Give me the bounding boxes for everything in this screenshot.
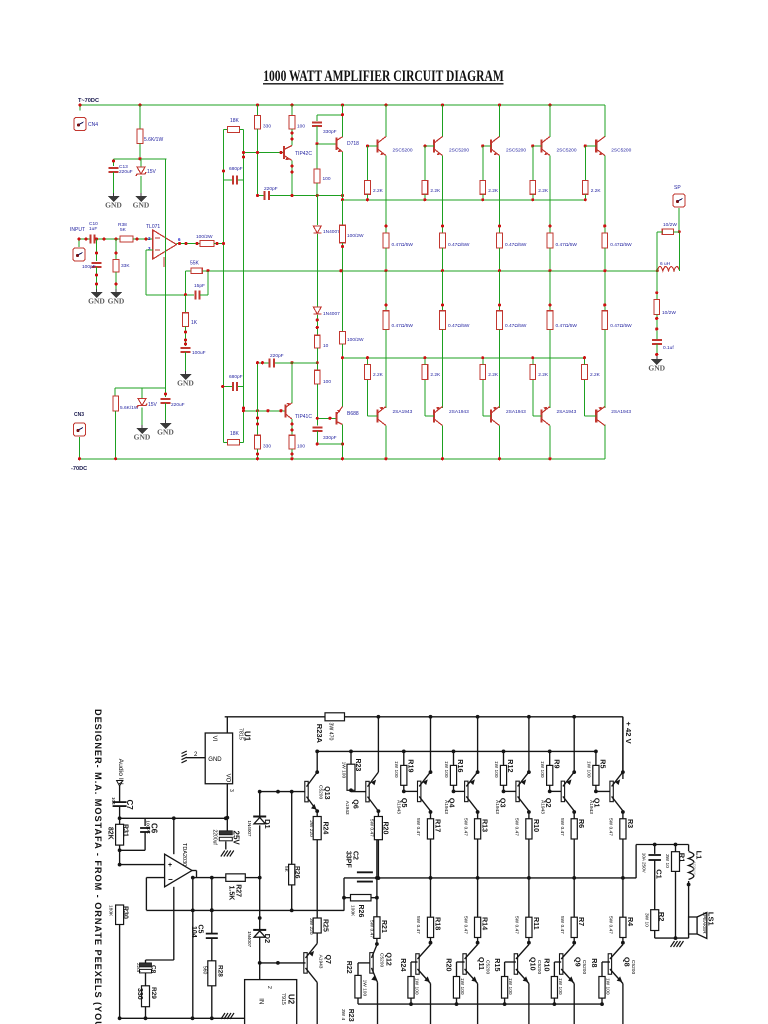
svg-text:2SC5200: 2SC5200: [449, 148, 469, 154]
svg-text:2.2K: 2.2K: [430, 188, 441, 194]
svg-text:5K: 5K: [120, 227, 127, 233]
svg-text:A1943: A1943: [396, 800, 402, 814]
svg-text:2.2K: 2.2K: [488, 372, 499, 378]
svg-text:R12: R12: [506, 759, 515, 772]
svg-text:100K: 100K: [350, 905, 356, 917]
svg-text:1W 100: 1W 100: [459, 978, 465, 995]
svg-text:1W 100: 1W 100: [362, 980, 368, 997]
svg-text:C5200: C5200: [485, 960, 491, 974]
svg-text:SPEAKER: SPEAKER: [702, 912, 707, 934]
svg-text:10/2W: 10/2W: [663, 222, 677, 228]
svg-text:CN4: CN4: [88, 122, 98, 128]
svg-text:3W 10: 3W 10: [643, 913, 649, 927]
svg-text:R18: R18: [434, 917, 443, 930]
svg-text:0.47Ω/5W: 0.47Ω/5W: [610, 242, 632, 248]
svg-text:D1: D1: [263, 819, 272, 829]
svg-text:18K: 18K: [230, 431, 240, 437]
svg-text:VI: VI: [211, 736, 217, 742]
svg-text:2W 220: 2W 220: [308, 820, 314, 837]
svg-text:680pF: 680pF: [229, 374, 243, 380]
svg-text:1N4007: 1N4007: [323, 229, 340, 235]
svg-text:C8: C8: [150, 965, 157, 974]
svg-text:CN3: CN3: [74, 412, 84, 418]
svg-text:R2: R2: [657, 912, 666, 922]
svg-text:A1943: A1943: [344, 801, 350, 815]
svg-text:R29: R29: [150, 987, 157, 999]
svg-text:330pF: 330pF: [323, 435, 337, 441]
svg-text:A1943: A1943: [588, 800, 594, 814]
svg-text:5W 0.47: 5W 0.47: [608, 916, 614, 934]
svg-text:A1943: A1943: [539, 800, 545, 814]
svg-text:R23: R23: [347, 1009, 354, 1022]
svg-text:33PF: 33PF: [344, 851, 351, 868]
svg-text:560: 560: [202, 966, 208, 975]
svg-text:15V: 15V: [147, 169, 157, 175]
svg-text:5W 0.47: 5W 0.47: [514, 818, 520, 836]
svg-text:Q6: Q6: [352, 799, 359, 808]
svg-text:GND: GND: [177, 379, 194, 388]
svg-text:A1943: A1943: [494, 800, 500, 814]
svg-text:3W 4: 3W 4: [340, 1009, 346, 1021]
svg-text:1N4007: 1N4007: [323, 311, 340, 317]
svg-text:7915: 7915: [280, 993, 286, 1005]
svg-text:2.2K: 2.2K: [488, 188, 499, 194]
svg-text:C5200: C5200: [536, 960, 542, 974]
svg-text:5.6K/1W: 5.6K/1W: [144, 137, 163, 143]
svg-text:SP: SP: [674, 185, 681, 191]
svg-text:C5200: C5200: [581, 960, 587, 974]
svg-text:TDA2030: TDA2030: [181, 843, 187, 866]
svg-text:R24: R24: [322, 822, 329, 835]
svg-text:C5200: C5200: [379, 953, 385, 967]
svg-text:R31: R31: [122, 824, 129, 837]
svg-text:R28: R28: [216, 965, 223, 977]
svg-text:5W 0.47: 5W 0.47: [415, 916, 421, 934]
svg-text:2SC5200: 2SC5200: [393, 148, 413, 154]
svg-text:VO: VO: [225, 774, 231, 783]
svg-text:104: 104: [111, 797, 116, 805]
svg-text:15pF: 15pF: [194, 283, 205, 289]
svg-text:1.5K: 1.5K: [228, 886, 235, 901]
svg-text:DESIGNER- M.A. MOSTAFA - FROM: DESIGNER- M.A. MOSTAFA - FROM - ORNATE P…: [93, 709, 103, 1024]
svg-text:100: 100: [297, 444, 305, 450]
svg-text:5W 0.47: 5W 0.47: [368, 920, 374, 938]
svg-text:1W 100: 1W 100: [393, 761, 399, 778]
svg-text:Q12: Q12: [384, 953, 391, 966]
svg-text:100pF: 100pF: [82, 264, 96, 270]
svg-text:2.2K: 2.2K: [538, 188, 549, 194]
svg-text:1uF: 1uF: [89, 226, 97, 232]
svg-text:5W 0.47: 5W 0.47: [415, 818, 421, 836]
svg-text:GND: GND: [157, 428, 174, 437]
svg-text:330: 330: [263, 124, 271, 130]
svg-text:C1: C1: [655, 869, 664, 879]
svg-text:B688: B688: [347, 411, 359, 417]
svg-text:1W 100: 1W 100: [413, 978, 419, 995]
svg-text:100/2W: 100/2W: [347, 337, 364, 343]
svg-text:0.1uf: 0.1uf: [663, 345, 674, 351]
svg-text:180K: 180K: [108, 905, 114, 917]
svg-text:1W 100: 1W 100: [585, 761, 591, 778]
svg-text:5W 0.47: 5W 0.47: [369, 819, 375, 837]
svg-text:D2: D2: [263, 934, 272, 944]
svg-text:5W 0.47: 5W 0.47: [462, 916, 468, 934]
svg-text:INPUT: INPUT: [70, 227, 85, 233]
svg-text:R23: R23: [354, 759, 361, 772]
svg-text:2.2K: 2.2K: [591, 188, 602, 194]
svg-text:5W 0.47: 5W 0.47: [608, 818, 614, 836]
svg-text:L1: L1: [695, 851, 704, 860]
svg-text:2SC5200: 2SC5200: [557, 148, 577, 154]
svg-text:5W 0.47: 5W 0.47: [559, 916, 565, 934]
svg-text:+ 42 V: + 42 V: [624, 722, 633, 745]
svg-text:5W 0.47: 5W 0.47: [514, 916, 520, 934]
svg-text:2.2K: 2.2K: [590, 372, 601, 378]
svg-text:3: 3: [228, 789, 234, 792]
svg-text:100uH: 100uH: [692, 862, 697, 875]
svg-text:2200uf: 2200uf: [212, 830, 218, 846]
svg-text:18K: 18K: [230, 118, 240, 124]
svg-text:2.2K: 2.2K: [373, 188, 384, 194]
svg-text:+: +: [168, 862, 172, 869]
svg-text:R8: R8: [590, 958, 599, 967]
svg-text:1W 100: 1W 100: [443, 761, 449, 778]
svg-text:C2: C2: [352, 851, 359, 860]
svg-text:R4: R4: [626, 917, 635, 926]
svg-text:100PF: 100PF: [145, 820, 150, 834]
svg-text:R9: R9: [552, 759, 561, 768]
svg-text:A1943: A1943: [443, 800, 449, 814]
svg-text:2SC5200: 2SC5200: [611, 148, 631, 154]
svg-text:680pF: 680pF: [229, 166, 243, 172]
svg-text:R24: R24: [399, 958, 408, 971]
svg-text:R10: R10: [532, 819, 541, 832]
svg-text:R14: R14: [481, 917, 490, 930]
svg-text:-70DC: -70DC: [71, 466, 87, 472]
svg-text:0.47Ω/5W: 0.47Ω/5W: [448, 323, 470, 329]
svg-text:100: 100: [297, 124, 305, 130]
svg-text:100uF: 100uF: [192, 350, 206, 356]
svg-text:R3: R3: [626, 819, 635, 828]
svg-text:100/2W: 100/2W: [196, 234, 213, 240]
svg-text:2SC5200: 2SC5200: [506, 148, 526, 154]
svg-text:0.47Ω/5W: 0.47Ω/5W: [556, 242, 578, 248]
svg-text:0.47Ω/5W: 0.47Ω/5W: [610, 323, 632, 329]
svg-text:TL071: TL071: [146, 224, 160, 230]
svg-text:100: 100: [323, 379, 331, 385]
svg-text:R13: R13: [481, 819, 490, 832]
svg-text:5W 0.47: 5W 0.47: [559, 818, 565, 836]
svg-text:220uF: 220uF: [119, 169, 133, 175]
svg-text:7815: 7815: [237, 728, 243, 740]
svg-text:0.47Ω/5W: 0.47Ω/5W: [505, 242, 527, 248]
svg-text:TIP41C: TIP41C: [295, 414, 312, 420]
svg-text:82K: 82K: [107, 827, 114, 840]
svg-text:C7: C7: [125, 800, 134, 811]
svg-text:R21: R21: [380, 920, 387, 933]
svg-text:GND: GND: [108, 297, 125, 306]
svg-text:2SA1943: 2SA1943: [506, 409, 526, 415]
svg-text:100/2W: 100/2W: [347, 233, 364, 239]
svg-text:Q13: Q13: [323, 786, 330, 799]
svg-text:R23A: R23A: [315, 724, 324, 744]
svg-text:GND: GND: [134, 433, 151, 442]
svg-text:2SA1943: 2SA1943: [449, 409, 469, 415]
svg-text:2: 2: [266, 986, 272, 989]
svg-text:IN: IN: [258, 998, 264, 1004]
svg-text:R17: R17: [434, 819, 443, 832]
svg-text:GND: GND: [648, 364, 665, 373]
svg-text:10: 10: [323, 343, 329, 349]
svg-text:GND: GND: [105, 201, 122, 210]
svg-text:T~70DC: T~70DC: [78, 98, 99, 104]
svg-text:5K: 5K: [283, 866, 289, 873]
svg-text:5W 0.47: 5W 0.47: [462, 818, 468, 836]
svg-text:R5: R5: [599, 759, 608, 768]
svg-text:R19: R19: [406, 759, 415, 772]
svg-text:330: 330: [136, 988, 143, 1000]
svg-text:A1943: A1943: [318, 955, 324, 969]
svg-text:R26: R26: [357, 905, 364, 918]
svg-text:1K: 1K: [191, 320, 198, 326]
svg-text:1N4007: 1N4007: [247, 820, 252, 837]
svg-text:220pF: 220pF: [270, 353, 284, 359]
svg-text:Q7: Q7: [324, 955, 331, 964]
svg-text:3W 220: 3W 220: [308, 918, 314, 935]
svg-text:10A 250V: 10A 250V: [642, 853, 647, 874]
svg-text:3W 10: 3W 10: [664, 854, 670, 868]
svg-text:2SA1943: 2SA1943: [611, 409, 631, 415]
svg-text:R11: R11: [532, 917, 541, 930]
svg-text:0.47Ω/5W: 0.47Ω/5W: [556, 323, 578, 329]
svg-text:104: 104: [190, 926, 197, 938]
svg-text:GND: GND: [88, 297, 105, 306]
svg-text:220uF: 220uF: [171, 402, 185, 408]
svg-text:55K: 55K: [190, 261, 200, 267]
svg-text:R10: R10: [543, 958, 552, 971]
svg-text:C5200: C5200: [318, 785, 324, 799]
svg-text:33K: 33K: [121, 263, 130, 269]
svg-text:2.2K: 2.2K: [373, 372, 384, 378]
svg-text:GND: GND: [208, 757, 222, 763]
svg-text:0.47Ω/5W: 0.47Ω/5W: [505, 323, 527, 329]
svg-text:−: −: [168, 875, 173, 884]
svg-text:2.2K: 2.2K: [430, 372, 441, 378]
svg-text:10/2W: 10/2W: [662, 310, 676, 316]
svg-text:22uf: 22uf: [136, 963, 141, 973]
svg-text:R7: R7: [577, 917, 586, 926]
svg-text:25V: 25V: [232, 831, 241, 846]
svg-text:R25: R25: [322, 919, 329, 932]
svg-text:1W 100: 1W 100: [557, 978, 563, 995]
svg-text:U2: U2: [287, 994, 296, 1005]
svg-text:R22: R22: [345, 961, 352, 974]
svg-text:1W 100: 1W 100: [340, 762, 346, 779]
svg-text:15V: 15V: [148, 402, 158, 408]
svg-text:0.47Ω/5W: 0.47Ω/5W: [392, 323, 414, 329]
svg-text:0.47Ω/5W: 0.47Ω/5W: [448, 242, 470, 248]
svg-text:R26: R26: [294, 866, 301, 879]
svg-text:C5200: C5200: [630, 960, 636, 974]
svg-text:220pF: 220pF: [264, 186, 278, 192]
svg-text:R20: R20: [382, 822, 389, 835]
svg-text:1W 100: 1W 100: [604, 978, 610, 995]
svg-text:1N4007: 1N4007: [247, 931, 252, 948]
svg-text:R16: R16: [456, 759, 465, 772]
svg-text:330: 330: [263, 444, 271, 450]
svg-text:1000 WATT AMPLIFIER CIRCUIT DI: 1000 WATT AMPLIFIER CIRCUIT DIAGRAM: [263, 68, 504, 85]
svg-text:GND: GND: [133, 201, 150, 210]
svg-text:1W 100: 1W 100: [493, 761, 499, 778]
svg-text:1W 100: 1W 100: [539, 761, 545, 778]
svg-text:3W 470: 3W 470: [328, 723, 334, 741]
svg-text:R6: R6: [577, 819, 586, 828]
svg-text:R15: R15: [493, 958, 502, 971]
svg-text:330pF: 330pF: [323, 129, 337, 135]
svg-text:TIP42C: TIP42C: [295, 151, 312, 157]
svg-text:2SA1943: 2SA1943: [557, 409, 577, 415]
svg-text:D718: D718: [347, 141, 359, 147]
svg-text:100: 100: [323, 176, 331, 182]
svg-text:5.6K/1W: 5.6K/1W: [120, 405, 139, 411]
svg-text:R1: R1: [677, 853, 686, 863]
svg-text:R20: R20: [445, 958, 454, 971]
svg-text:2SA1943: 2SA1943: [393, 409, 413, 415]
svg-text:1W 100: 1W 100: [507, 978, 513, 995]
svg-text:0.47Ω/5W: 0.47Ω/5W: [392, 242, 414, 248]
svg-text:R30: R30: [122, 906, 129, 919]
svg-text:2.2K: 2.2K: [538, 372, 549, 378]
